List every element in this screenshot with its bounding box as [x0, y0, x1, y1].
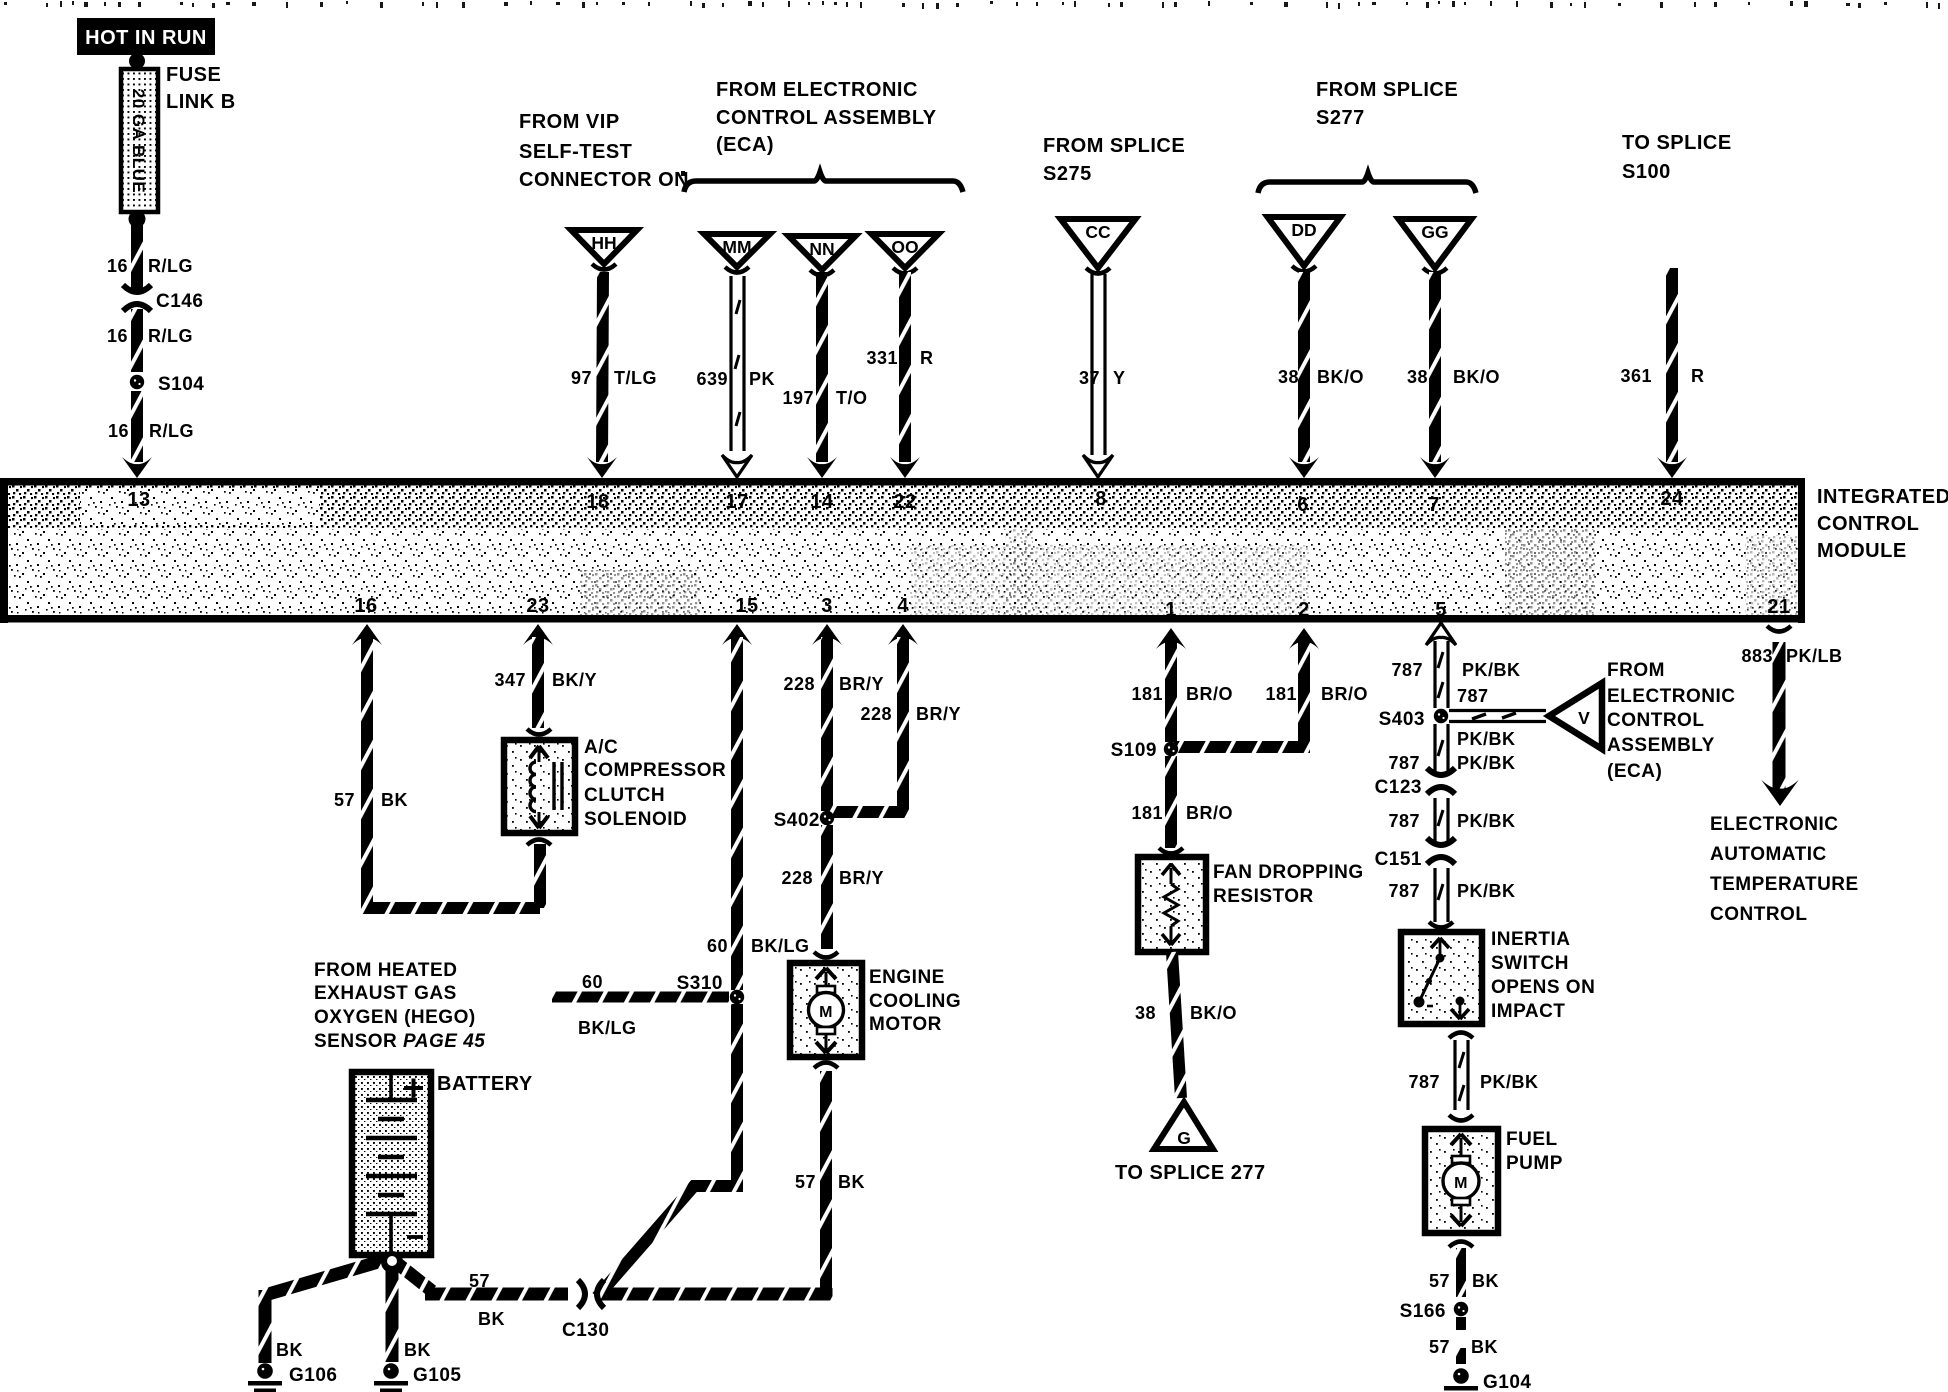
svg-text:787: 787	[1388, 881, 1420, 901]
svg-text:COMPRESSOR: COMPRESSOR	[584, 760, 726, 781]
svg-text:G: G	[1177, 1128, 1191, 1148]
svg-text:GG: GG	[1421, 222, 1448, 242]
svg-text:TO SPLICE 277: TO SPLICE 277	[1115, 1162, 1266, 1184]
wire 787 PK/BK S403 to C123 (hollow)	[1388, 724, 1515, 773]
svg-text:38: 38	[1278, 367, 1299, 387]
label FUEL PUMP	[1506, 1129, 1563, 1174]
label FROM VIP SELF-TEST CONNECTOR ON	[519, 111, 689, 191]
connector C146	[123, 285, 203, 312]
svg-text:BK/O: BK/O	[1190, 1003, 1237, 1023]
svg-text:R/LG: R/LG	[149, 421, 194, 441]
svg-text:IMPACT: IMPACT	[1491, 1001, 1565, 1022]
svg-text:S275: S275	[1043, 163, 1092, 185]
svg-text:228: 228	[860, 704, 892, 724]
svg-text:G106: G106	[289, 1365, 337, 1386]
wire 60 BK/LG stub into S310	[552, 972, 729, 1038]
svg-text:OXYGEN (HEGO): OXYGEN (HEGO)	[314, 1007, 476, 1028]
splice S402	[774, 810, 835, 831]
connector DD (from splice S277)	[1268, 217, 1341, 272]
svg-text:BK/O: BK/O	[1453, 367, 1500, 387]
svg-text:COOLING: COOLING	[869, 991, 961, 1012]
svg-text:EXHAUST GAS: EXHAUST GAS	[314, 983, 457, 1004]
wire 57 BK bottom run from C130 to motor branch	[469, 1271, 832, 1329]
svg-text:BR/Y: BR/Y	[916, 704, 961, 724]
svg-text:TEMPERATURE: TEMPERATURE	[1710, 874, 1859, 895]
connector CC (from splice S275)	[1061, 219, 1136, 274]
svg-text:PK/LB: PK/LB	[1786, 646, 1843, 666]
svg-text:S310: S310	[677, 973, 723, 994]
svg-text:FAN DROPPING: FAN DROPPING	[1213, 862, 1364, 883]
svg-text:DD: DD	[1291, 220, 1316, 240]
integrated control module bar	[0, 478, 1805, 623]
svg-text:16: 16	[107, 256, 128, 276]
svg-text:MODULE: MODULE	[1817, 540, 1907, 562]
connector C151	[1375, 838, 1455, 870]
fan dropping resistor	[1138, 848, 1206, 952]
connector G (to splice 277)	[1154, 1102, 1213, 1149]
label 16 R/LG (upper)	[107, 256, 193, 276]
svg-text:R/LG: R/LG	[148, 256, 193, 276]
svg-text:SOLENOID: SOLENOID	[584, 809, 687, 830]
svg-text:ELECTRONIC: ELECTRONIC	[1607, 686, 1736, 707]
svg-text:197: 197	[782, 388, 814, 408]
svg-text:S100: S100	[1622, 161, 1671, 183]
svg-text:787: 787	[1391, 660, 1423, 680]
svg-text:V: V	[1578, 708, 1590, 728]
svg-text:BR/O: BR/O	[1186, 803, 1233, 823]
connector OO (from ECA)	[872, 234, 939, 274]
svg-text:CLUTCH: CLUTCH	[584, 785, 665, 806]
svg-text:181: 181	[1265, 684, 1297, 704]
svg-text:NN: NN	[809, 239, 834, 259]
svg-text:PUMP: PUMP	[1506, 1153, 1563, 1174]
svg-text:Y: Y	[1113, 368, 1126, 388]
label A/C COMPRESSOR CLUTCH SOLENOID	[584, 737, 726, 830]
svg-text:M: M	[1454, 1175, 1468, 1192]
fuse link B (20 GA BLUE)	[121, 53, 158, 228]
svg-text:5: 5	[1435, 599, 1447, 621]
svg-text:SWITCH: SWITCH	[1491, 953, 1569, 974]
wire 38 BK/O into pin 6	[1278, 272, 1364, 478]
svg-text:23: 23	[526, 595, 549, 617]
svg-text:FROM SPLICE: FROM SPLICE	[1316, 79, 1458, 101]
svg-text:3: 3	[821, 595, 833, 617]
svg-text:639: 639	[696, 369, 728, 389]
svg-text:2: 2	[1298, 599, 1310, 621]
svg-text:TO SPLICE: TO SPLICE	[1622, 132, 1732, 154]
svg-text:C123: C123	[1375, 777, 1422, 798]
splice S403	[1379, 709, 1449, 730]
svg-text:331: 331	[866, 348, 898, 368]
svg-text:15: 15	[735, 595, 758, 617]
svg-text:BATTERY: BATTERY	[437, 1073, 533, 1095]
svg-text:BK/Y: BK/Y	[552, 670, 597, 690]
wire 97 T/LG into pin 18	[571, 272, 657, 478]
svg-text:AUTOMATIC: AUTOMATIC	[1710, 844, 1827, 865]
svg-text:24: 24	[1660, 488, 1684, 510]
svg-text:228: 228	[781, 868, 813, 888]
ground G105	[374, 1363, 461, 1392]
svg-text:BR/Y: BR/Y	[839, 674, 884, 694]
wire 197 T/O into pin 14	[782, 272, 867, 478]
svg-text:R: R	[1691, 366, 1705, 386]
splice S109	[1111, 740, 1179, 761]
svg-text:BR/O: BR/O	[1321, 684, 1368, 704]
svg-text:PK/BK: PK/BK	[1480, 1072, 1539, 1092]
svg-text:BK: BK	[381, 790, 408, 810]
svg-text:C151: C151	[1375, 849, 1422, 870]
svg-text:228: 228	[783, 674, 815, 694]
wire 361 R into pin 24 (to splice S100)	[1620, 268, 1704, 478]
wire 228 BR/Y from S402 to engine cooling motor	[781, 825, 884, 949]
svg-text:MOTOR: MOTOR	[869, 1014, 942, 1035]
wire 38 BK/O into pin 7	[1407, 272, 1500, 478]
svg-text:PAGE 45: PAGE 45	[403, 1031, 485, 1052]
wire 228 BR/Y from pin 3 to S402	[783, 624, 884, 811]
svg-text:BK/LG: BK/LG	[751, 936, 810, 956]
A/C compressor clutch solenoid	[504, 729, 575, 845]
svg-text:57: 57	[1429, 1337, 1450, 1357]
svg-text:CONTROL: CONTROL	[1817, 513, 1919, 535]
fuel pump	[1425, 1129, 1498, 1233]
svg-text:S166: S166	[1400, 1301, 1446, 1322]
svg-text:38: 38	[1407, 367, 1428, 387]
svg-text:57: 57	[469, 1271, 490, 1291]
svg-text:PK/BK: PK/BK	[1457, 729, 1516, 749]
svg-text:PK/BK: PK/BK	[1457, 753, 1516, 773]
svg-text:S277: S277	[1316, 107, 1365, 129]
svg-text:181: 181	[1131, 684, 1163, 704]
wire 228 BR/Y from pin 4 elbow to S402	[829, 624, 961, 812]
svg-text:PK/BK: PK/BK	[1457, 881, 1516, 901]
wire battery negative branches	[265, 1256, 568, 1363]
svg-text:BK/LG: BK/LG	[578, 1018, 637, 1038]
wire 16 R/LG from fuse link to pin 13	[122, 225, 152, 478]
svg-text:PK/BK: PK/BK	[1462, 660, 1521, 680]
svg-text:S109: S109	[1111, 740, 1157, 761]
svg-text:INTEGRATED: INTEGRATED	[1817, 486, 1948, 508]
svg-text:CONNECTOR ON: CONNECTOR ON	[519, 169, 689, 191]
svg-text:BK: BK	[1471, 1337, 1498, 1357]
svg-text:8: 8	[1095, 488, 1107, 510]
svg-text:16: 16	[107, 326, 128, 346]
svg-text:13: 13	[127, 489, 150, 511]
svg-text:787: 787	[1457, 686, 1489, 706]
brace over ECA connectors	[684, 172, 963, 192]
svg-text:787: 787	[1388, 753, 1420, 773]
svg-text:22: 22	[893, 491, 916, 513]
label FROM ELECTRONIC CONTROL ASSEMBLY (ECA) right	[1607, 660, 1736, 782]
brace over S277 connectors	[1258, 173, 1476, 193]
svg-text:361: 361	[1620, 366, 1652, 386]
wire 883 PK/LB from pin 21 to EATC	[1741, 626, 1842, 806]
svg-text:ELECTRONIC: ELECTRONIC	[1710, 814, 1839, 835]
label INERTIA SWITCH OPENS ON IMPACT	[1491, 929, 1595, 1022]
battery	[352, 1072, 431, 1255]
svg-text:BK: BK	[276, 1340, 303, 1360]
wire 38 BK/O from resistor to G connector	[1135, 952, 1237, 1098]
svg-text:OO: OO	[891, 237, 918, 257]
svg-text:FROM VIP: FROM VIP	[519, 111, 620, 133]
svg-text:97: 97	[571, 368, 592, 388]
wire 60 BK/LG from pin 15 down through S310 to C130	[597, 624, 810, 1297]
svg-text:(ECA): (ECA)	[1607, 761, 1662, 782]
ground G104	[1444, 1368, 1531, 1392]
svg-text:RESISTOR: RESISTOR	[1213, 886, 1314, 907]
wire 181 BR/O from pin 2 elbow to S109	[1174, 628, 1368, 747]
svg-text:347: 347	[494, 670, 526, 690]
label 16 R/LG (middle)	[107, 326, 193, 346]
svg-text:BK: BK	[404, 1340, 431, 1360]
inertia switch	[1401, 922, 1482, 1024]
label INTEGRATED CONTROL MODULE	[1817, 486, 1948, 562]
engine cooling motor	[790, 952, 862, 1068]
svg-text:R: R	[920, 348, 934, 368]
svg-text:CONTROL: CONTROL	[1607, 710, 1704, 731]
wire 787 to ECA V connector (hollow)	[1449, 711, 1546, 722]
svg-text:57: 57	[1429, 1271, 1450, 1291]
svg-text:INERTIA: INERTIA	[1491, 929, 1571, 950]
connector C130	[562, 1280, 609, 1341]
label FUSE LINK B	[166, 64, 236, 113]
connector MM (from ECA)	[704, 234, 770, 273]
svg-text:38: 38	[1135, 1003, 1156, 1023]
label ENGINE COOLING MOTOR	[869, 967, 961, 1035]
svg-text:G105: G105	[413, 1365, 461, 1386]
wire 57 BK from motor to bottom run	[795, 1071, 865, 1294]
ground G106	[248, 1363, 337, 1392]
svg-text:17: 17	[725, 491, 748, 513]
wire 181 BR/O from pin 1 to S109	[1131, 628, 1233, 742]
svg-text:A/C: A/C	[584, 737, 618, 758]
connector C123	[1375, 768, 1455, 798]
svg-text:LINK B: LINK B	[166, 91, 236, 113]
svg-text:57: 57	[334, 790, 355, 810]
svg-text:883: 883	[1741, 646, 1773, 666]
svg-text:(ECA): (ECA)	[716, 134, 774, 156]
svg-text:BK/O: BK/O	[1317, 367, 1364, 387]
svg-text:57: 57	[795, 1172, 816, 1192]
label ELECTRONIC AUTOMATIC TEMPERATURE CONTROL	[1710, 814, 1859, 925]
svg-text:FROM ELECTRONIC: FROM ELECTRONIC	[716, 79, 918, 101]
svg-text:787: 787	[1408, 1072, 1440, 1092]
wire 57 BK from pin 16 to A/C compressor clutch solenoid	[334, 624, 540, 908]
svg-text:M: M	[819, 1004, 833, 1021]
connector V (from ECA)	[1549, 683, 1602, 749]
svg-text:1: 1	[1165, 599, 1177, 621]
svg-text:BK: BK	[478, 1309, 505, 1329]
svg-text:MM: MM	[722, 237, 751, 257]
wire 181 BR/O from S109 to fan dropping resistor	[1131, 756, 1233, 848]
svg-text:787: 787	[1388, 811, 1420, 831]
svg-text:S104: S104	[158, 374, 204, 395]
label 16 R/LG (lower)	[108, 421, 194, 441]
label FAN DROPPING RESISTOR	[1213, 862, 1364, 907]
node battery negative junction	[381, 1251, 403, 1273]
svg-text:HH: HH	[591, 233, 616, 253]
wire 787 PK/BK C123 to C151 (hollow)	[1388, 798, 1515, 842]
svg-text:FUEL: FUEL	[1506, 1129, 1558, 1150]
svg-text:FUSE: FUSE	[166, 64, 221, 86]
svg-text:C130: C130	[562, 1320, 609, 1341]
svg-text:BR/Y: BR/Y	[839, 868, 884, 888]
wire 639 PK into pin 17 (hollow)	[696, 276, 775, 477]
svg-text:ENGINE: ENGINE	[869, 967, 945, 988]
label FROM ELECTRONIC CONTROL ASSEMBLY (ECA)	[716, 79, 937, 156]
wire 787 PK/BK from pin 5 to S403 (hollow)	[1391, 623, 1520, 708]
svg-text:OPENS ON: OPENS ON	[1491, 977, 1595, 998]
svg-text:CC: CC	[1085, 222, 1111, 242]
svg-text:20 GA BLUE: 20 GA BLUE	[129, 89, 148, 194]
svg-text:CONTROL: CONTROL	[1710, 904, 1807, 925]
svg-text:PK: PK	[749, 369, 775, 389]
connector HH (from VIP self-test)	[571, 230, 637, 270]
svg-text:4: 4	[897, 595, 909, 617]
splice S104	[130, 374, 205, 395]
svg-text:37: 37	[1079, 368, 1100, 388]
svg-text:SELF-TEST: SELF-TEST	[519, 141, 632, 163]
label FROM SPLICE S275	[1043, 135, 1185, 185]
svg-text:R/LG: R/LG	[148, 326, 193, 346]
svg-text:FROM: FROM	[1607, 660, 1665, 681]
label TO SPLICE S100	[1622, 132, 1732, 183]
svg-text:7: 7	[1428, 494, 1440, 516]
label FROM HEATED EXHAUST GAS OXYGEN (HEGO) SENSOR PAGE 45	[314, 960, 485, 1052]
svg-text:ASSEMBLY: ASSEMBLY	[1607, 735, 1715, 756]
svg-text:60: 60	[582, 972, 603, 992]
svg-text:BK: BK	[1472, 1271, 1499, 1291]
splice S166	[1400, 1301, 1469, 1322]
svg-text:S403: S403	[1379, 709, 1425, 730]
svg-text:G104: G104	[1483, 1372, 1531, 1392]
svg-text:FROM SPLICE: FROM SPLICE	[1043, 135, 1185, 157]
svg-text:HOT IN RUN: HOT IN RUN	[85, 27, 207, 49]
wire page-edge tick marks	[4, 1, 1940, 9]
wire 787 PK/BK C151 to inertia switch (hollow)	[1388, 868, 1515, 922]
svg-text:60: 60	[707, 936, 728, 956]
connector GG (from splice S277)	[1399, 219, 1472, 274]
svg-text:18: 18	[586, 491, 609, 513]
svg-text:16: 16	[354, 595, 377, 617]
svg-text:S402: S402	[774, 810, 820, 831]
wire 787 PK/BK inertia switch to fuel pump (hollow)	[1408, 1033, 1538, 1121]
svg-text:FROM HEATED: FROM HEATED	[314, 960, 457, 981]
svg-text:C146: C146	[156, 291, 203, 312]
svg-text:T/O: T/O	[836, 388, 868, 408]
wire 57 BK S166 to G104	[1429, 1317, 1498, 1364]
svg-text:T/LG: T/LG	[614, 368, 657, 388]
label FROM SPLICE S277	[1316, 79, 1458, 129]
wire 37 Y into pin 8 (hollow)	[1079, 274, 1126, 477]
svg-text:21: 21	[1767, 596, 1790, 618]
svg-text:181: 181	[1131, 803, 1163, 823]
svg-text:CONTROL ASSEMBLY: CONTROL ASSEMBLY	[716, 107, 937, 129]
svg-text:6: 6	[1297, 494, 1309, 516]
svg-text:SENSOR: SENSOR	[314, 1031, 397, 1052]
svg-text:16: 16	[108, 421, 129, 441]
wire 347 BK/Y from pin 23 to A/C solenoid	[494, 624, 597, 728]
node HOT IN RUN feed label	[77, 18, 215, 55]
svg-text:BR/O: BR/O	[1186, 684, 1233, 704]
connector NN (from ECA)	[789, 236, 856, 276]
svg-text:PK/BK: PK/BK	[1457, 811, 1516, 831]
wire 331 R into pin 22	[866, 272, 933, 478]
svg-text:BK: BK	[838, 1172, 865, 1192]
svg-text:14: 14	[810, 491, 834, 513]
wire 57 BK fuel pump to S166	[1429, 1242, 1499, 1298]
splice S310	[677, 973, 745, 1004]
